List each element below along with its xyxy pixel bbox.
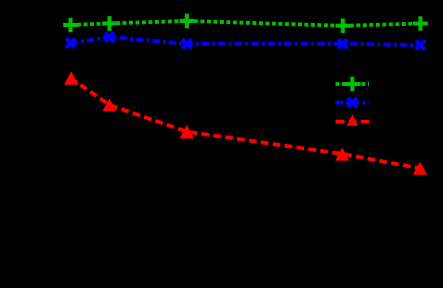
series 1 marker plus 3 [180,14,195,29]
series 3 line (red dashed) [71,78,421,168]
legend sample line 3 (red) [336,120,370,124]
series 3 marker triangle 5 [413,162,427,175]
series 3 marker triangle 2 [102,99,116,112]
series 1 marker plus 1 [63,18,78,33]
series 3 marker triangle 3 [180,125,194,139]
series 2 line (blue dash-dot) [71,37,421,45]
series 1 line (green dotted) [71,21,421,26]
series 2 marker x 2 [105,32,114,41]
legend marker plus (green) [344,77,361,92]
series 2 marker x 3 [182,39,191,48]
legend sample line 1 (green) [336,82,370,86]
series 3 marker triangle 1 [64,71,78,85]
series 1 marker plus 5 [413,16,428,31]
series 2 marker x 5 [416,41,425,50]
legend sample line 2 (blue) [336,101,370,105]
series 2 marker x 1 [66,39,75,48]
legend marker x (blue) [348,98,357,107]
series 2 marker x 4 [338,39,347,48]
series 1 marker plus 2 [102,16,117,31]
legend marker triangle (red) [347,114,358,126]
series 1 marker plus 4 [336,19,351,34]
series 3 marker triangle 4 [335,148,349,161]
